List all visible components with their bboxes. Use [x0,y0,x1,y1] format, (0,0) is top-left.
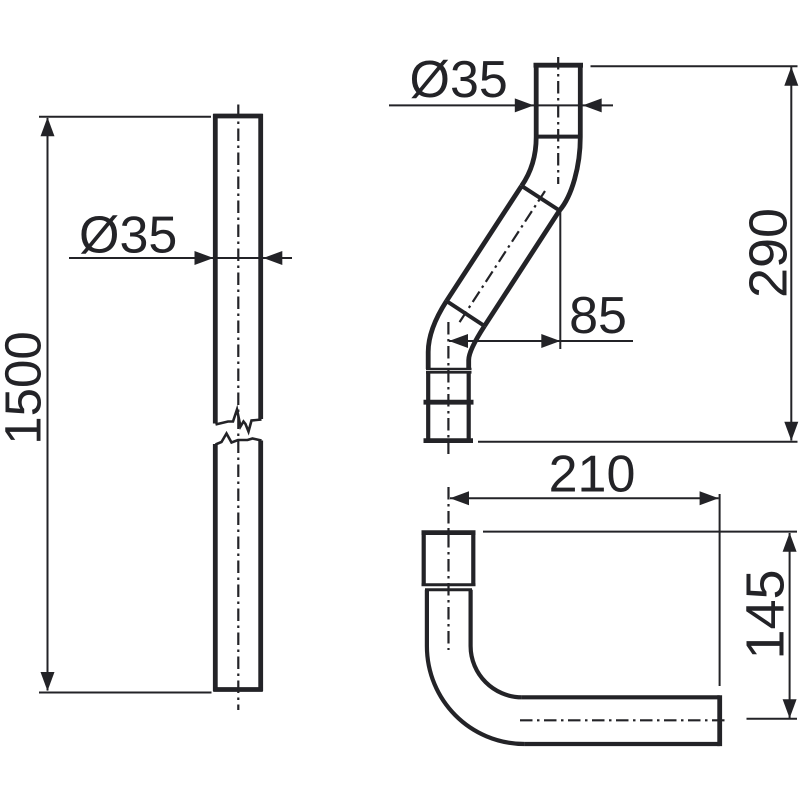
dimension diameter 35 (left view) arrowhead right-pointing [195,251,214,265]
pipe P2 diagonal left edge [447,186,522,301]
pipe P3 horizontal tube top edge [522,695,720,699]
pipe P3 bend outer edge [427,646,525,744]
pipe P2 centerline bottom segment [447,322,449,454]
pipe P3 end cap [717,695,722,746]
svg-text:210: 210 [549,446,636,504]
dimension 85 extension line [559,211,561,350]
dimension 1500 extension line top [39,116,211,118]
pipe P2 top tube left edge [534,63,539,137]
pipe P2 centerline top segment [557,57,559,184]
pipe P3 horizontal tube bottom edge [525,742,720,746]
dimension 290 line [790,67,792,441]
svg-text:1500: 1500 [0,331,52,444]
dimension 145 extension line top [483,531,797,533]
dimension 1500 line [47,118,49,691]
pipe P2 socket ring [424,400,474,405]
pipe P2 lower bend right edge [469,326,485,369]
pipe P2 diagonal right edge [485,211,560,327]
pipe P2 diagonal seam lower [447,301,485,326]
pipe P3 socket seam lower line [425,588,472,591]
pipe P2 bottom cap [424,438,474,443]
dimension 210 arrowhead right-pointing [700,491,719,505]
pipe P2 top tube right edge [578,63,583,137]
dimension 1500 arrowhead up [41,117,55,136]
dimension 85 line [449,340,633,342]
pipe P2 diagonal seam upper [522,186,560,211]
dimension diameter 35 (left view) line left part [69,257,292,259]
pipe P2 centerline diagonal segment [459,191,545,323]
pipe P2 lower tube right edge [467,372,471,439]
dimension 210 extension line right [719,494,721,686]
dimension 290 arrowhead up [784,67,798,86]
pipe P1 straight tube body (left view) [213,114,263,691]
pipe P1 centerline [237,105,239,711]
pipe P3 elbow (bottom right view) top cap [422,530,476,535]
dimension 85 arrowhead left-pointing [449,334,468,348]
dimension diameter 35 (left view) arrowhead left-pointing [263,251,282,265]
pipe P2 seam below top tube [534,135,583,139]
svg-text:290: 290 [739,208,799,298]
dimension 210 line [450,497,719,499]
dimension 145 line [789,533,791,718]
svg-text:Ø35: Ø35 [79,207,177,265]
pipe P3 vertical centerline [447,487,449,650]
dimension diameter 35 (P2) arrowhead right-pointing [515,98,534,112]
svg-text:85: 85 [569,287,627,345]
pipe P1 break symbol lower jag [216,434,262,445]
dimension 290 arrowhead down [784,422,798,441]
pipe P3 horizontal centerline [520,719,727,721]
pipe P3 socket right edge [471,531,475,586]
dimension diameter 35 (P2) line left part [389,104,613,106]
dimension 1500 extension line bottom [39,692,212,694]
svg-text:Ø35: Ø35 [410,51,508,109]
pipe P3 bend inner edge [471,646,522,697]
dimension 1500 arrowhead down [41,672,55,691]
pipe P3 vertical tube left edge [425,590,429,646]
dimension diameter 35 (P2) arrowhead left-pointing [583,98,602,112]
dimension 85 arrowhead right-pointing [541,334,560,348]
dimension 145 arrowhead up [783,533,797,552]
pipe P2 upper bend right edge [560,137,581,211]
pipe P3 vertical tube right edge [469,590,473,646]
pipe P3 socket left edge [422,531,426,586]
pipe P2 offset tube (top right view) top cap [534,63,584,68]
pipe P3 socket seam upper line [422,583,476,586]
dimension 145 arrowhead down [783,699,797,718]
dimension 145 extension line bottom [747,718,798,720]
pipe P2 upper bend left edge [522,137,537,186]
dimension 290 extension line top [591,65,798,67]
pipe P2 lower bend left edge [428,301,446,369]
dimension 290 extension line bottom [478,441,798,443]
dimension 210 arrowhead left-pointing [450,491,469,505]
pipe P2 lower tube left edge [426,372,430,439]
pipe P2 lower seam double line [426,368,472,371]
svg-text:145: 145 [736,569,796,659]
pipe P1 break symbol upper jag [216,410,262,432]
